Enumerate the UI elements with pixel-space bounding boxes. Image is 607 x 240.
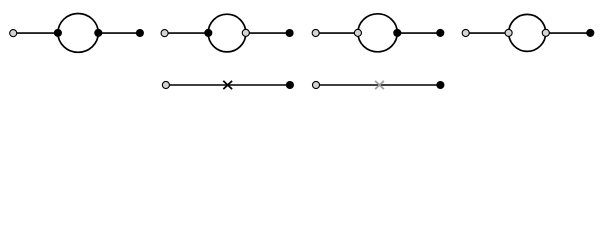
node: D1 vertex right (black) bbox=[94, 29, 102, 37]
node: D3 external left (open gray) bbox=[312, 29, 319, 36]
loop: D2 circle bbox=[208, 14, 246, 52]
node: D1 vertex left (black) bbox=[54, 29, 62, 37]
node: D3 vertex right (black) bbox=[393, 29, 401, 37]
node: D4 external left (open gray) bbox=[462, 29, 469, 36]
wire: B2 propagator bbox=[316, 84, 440, 86]
wire: D4 right propagator bbox=[546, 32, 591, 34]
loop: D4 circle bbox=[509, 14, 546, 51]
wire: D1 right propagator bbox=[98, 32, 140, 34]
node: D1 external right (black) bbox=[136, 29, 144, 37]
wire: D2 left propagator bbox=[165, 32, 209, 34]
loop: D1 circle bbox=[58, 14, 98, 53]
node: D2 external left (open gray) bbox=[161, 30, 168, 37]
diagram D4: one-loop self-energy, both vertices gray bbox=[462, 14, 594, 51]
counterterm cross: B2 (gray) bbox=[375, 81, 384, 89]
wire: D4 left propagator bbox=[466, 32, 509, 34]
diagram B2: counterterm insertion, gray cross bbox=[312, 81, 444, 89]
wire: D1 left propagator bbox=[13, 32, 58, 34]
counterterm cross: B1 (black) bbox=[223, 81, 232, 89]
node: D4 vertex left (open gray) bbox=[505, 29, 512, 36]
node: D4 external right (black) bbox=[586, 29, 594, 37]
diagram D2: one-loop self-energy, left vertex black, right vertex gray bbox=[161, 14, 294, 52]
node: D3 external right (black) bbox=[436, 29, 444, 37]
node: B2 external right (black) bbox=[436, 81, 444, 89]
wire: D2 right propagator bbox=[246, 32, 290, 34]
diagram D1: one-loop self-energy, both vertices black bbox=[10, 14, 144, 53]
node: D1 external left (open gray) bbox=[10, 30, 17, 37]
diagram B1: counterterm insertion, black cross bbox=[162, 81, 294, 89]
diagram D3: one-loop self-energy, left vertex gray, right vertex black bbox=[312, 14, 444, 52]
node: D2 vertex right (open gray) bbox=[242, 29, 249, 36]
node: D2 external right (black) bbox=[286, 29, 294, 37]
node: B2 external left (open gray) bbox=[312, 81, 319, 88]
node: D3 vertex left (open gray) bbox=[354, 29, 361, 36]
loop: D3 circle bbox=[358, 14, 397, 52]
node: B1 external left (open gray) bbox=[162, 81, 169, 88]
node: D2 vertex left (black) bbox=[204, 29, 212, 37]
node: D4 vertex right (open gray) bbox=[542, 29, 549, 36]
wire: D3 right propagator bbox=[397, 32, 440, 34]
wire: D3 left propagator bbox=[316, 32, 358, 34]
node: B1 external right (black) bbox=[286, 81, 294, 89]
wire: B1 propagator bbox=[166, 84, 290, 86]
